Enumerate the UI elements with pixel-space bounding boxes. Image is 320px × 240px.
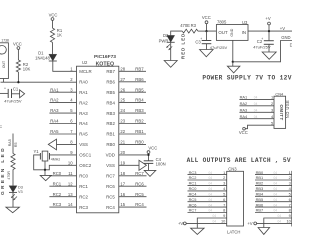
svg-text:12: 12 <box>68 181 73 186</box>
svg-text:C3: C3 <box>195 39 201 44</box>
svg-text:RC6: RC6 <box>106 184 115 189</box>
junction +V rail/C2 <box>268 30 270 32</box>
svg-text:RB2: RB2 <box>135 119 144 124</box>
svg-text:04: 04 <box>213 220 217 224</box>
svg-text:RC6: RC6 <box>189 202 197 207</box>
wire net RC1 to CN3 pin 3 <box>188 184 227 186</box>
svg-text:14: 14 <box>68 202 73 207</box>
wire D1 to MCLR pin 1 <box>53 61 77 71</box>
svg-text:8: 8 <box>223 208 225 213</box>
wire CN3 pin 9 to ground <box>197 218 226 228</box>
wire into C1 <box>0 92 8 94</box>
svg-text:+V: +V <box>178 221 183 226</box>
node RB1 label <box>135 129 144 134</box>
ground (C2) <box>262 52 276 59</box>
CN3 pin number 5 <box>223 192 225 197</box>
svg-text:04: 04 <box>209 203 213 207</box>
svg-text:RA5: RA5 <box>8 139 12 146</box>
wire VCC terminal down to VDD wire <box>148 154 150 161</box>
junction 7805 gnd <box>232 61 234 63</box>
wire net RC4 to CN3 pin 5 <box>188 195 227 197</box>
wire gnd rail to right edge <box>233 41 292 62</box>
svg-text:23: 23 <box>120 119 125 124</box>
svg-text:RB5: RB5 <box>106 90 115 95</box>
svg-text:100N: 100N <box>156 162 166 167</box>
LED D2 emission arrows <box>166 44 172 50</box>
svg-text:RB2: RB2 <box>256 181 264 186</box>
pin name RC2 (left row 13) <box>79 194 88 199</box>
pin number 12 <box>68 181 73 186</box>
svg-text:+V: +V <box>280 26 285 31</box>
svg-text:RA2: RA2 <box>79 100 88 105</box>
wire net RB5 from pin 26 <box>119 91 146 93</box>
junction R2/bus <box>17 81 19 83</box>
CN3 pin number 10 <box>221 219 226 224</box>
wire C1 to port arrow <box>12 93 20 95</box>
ground (green LED) <box>6 207 20 213</box>
faint mark CN3 row 1 <box>209 171 213 175</box>
faint mark CN3 row 4 <box>209 187 213 191</box>
svg-text:D2: D2 <box>163 33 169 38</box>
node RC3 label <box>53 202 62 207</box>
CN4 pin number 2 <box>271 101 273 106</box>
node RB0 label <box>135 140 144 145</box>
svg-text:RC1: RC1 <box>79 184 88 189</box>
label +V (rail, right) <box>280 26 285 31</box>
svg-text:RB5: RB5 <box>135 87 144 92</box>
power VCC terminal (R2 top) <box>13 41 22 49</box>
svg-text:7: 7 <box>289 202 291 207</box>
svg-text:04: 04 <box>278 220 282 224</box>
svg-text:RC5: RC5 <box>189 197 197 202</box>
wire net RC5 to CN3 pin 6 <box>188 201 227 203</box>
wire CN4 pin 5 to VCC <box>245 125 274 129</box>
label C3 value 47uF/25V <box>210 45 228 50</box>
svg-text:04: 04 <box>274 203 278 207</box>
faint mark CN2 row 3 <box>274 182 278 186</box>
label D2 <box>163 33 169 38</box>
wire net RC2 to CN3 pin 2 <box>188 179 227 181</box>
svg-text:RC2: RC2 <box>53 192 62 197</box>
capacitor C1 plates <box>8 89 11 98</box>
svg-text:RA1: RA1 <box>50 87 59 92</box>
pin number 1 <box>70 66 73 71</box>
wire R2 to bus <box>17 72 19 82</box>
svg-text:1: 1 <box>271 95 273 100</box>
CN2 pin number 10 <box>286 219 291 224</box>
junction VDD/C4 <box>147 154 149 156</box>
node VCC label (clipped at left edge) <box>0 125 2 129</box>
label C2 value 47uF/25V <box>253 45 271 50</box>
resistor R3 <box>182 29 198 33</box>
wire IR OUT pin down to RA0 bus <box>3 79 5 83</box>
CN2 pin number 9 <box>289 213 291 218</box>
label 4MHz <box>51 157 61 161</box>
svg-text:RC7: RC7 <box>189 208 197 213</box>
wire net RC1 to pin 12 <box>49 185 76 187</box>
wire net RB6 from pin 27 <box>119 81 146 83</box>
faint mark CN2 row 8 <box>274 209 278 213</box>
svg-text:RB5: RB5 <box>256 197 264 202</box>
label Y1 <box>34 149 40 154</box>
net port arrow right (C1) <box>20 90 25 98</box>
IR receiver module U1 (TSOP1738) body <box>0 43 8 79</box>
IR receiver label 1738 <box>1 39 9 43</box>
label R2 10K <box>23 62 31 71</box>
pin number 21 <box>120 140 125 145</box>
power +V terminal (CN2) <box>247 221 256 226</box>
label C3 <box>195 39 201 44</box>
pin name RA3 (left row 5) <box>79 111 88 116</box>
svg-text:VDD: VDD <box>106 153 115 158</box>
svg-text:RC7: RC7 <box>135 171 144 176</box>
node RA1 label <box>50 87 59 92</box>
node RB6 label <box>135 77 144 82</box>
wire net RC0 to CN3 pin 4 <box>188 190 227 192</box>
svg-text:470R: 470R <box>7 171 11 180</box>
pin name RA5 (left row 7) <box>79 132 88 137</box>
ground port arrow (pin 8 VSS) <box>48 139 56 150</box>
pin name RC1 (left row 12) <box>79 184 88 189</box>
svg-text:GREEN LED: GREEN LED <box>0 146 5 195</box>
power +V terminal (C2 top) <box>265 16 270 25</box>
svg-text:RB1: RB1 <box>256 175 264 180</box>
svg-text:RC1: RC1 <box>53 181 62 186</box>
label 470E R3 <box>180 23 196 28</box>
faint mark CN2 row 2 <box>274 176 278 180</box>
wire R3 left to LED D2 <box>171 31 183 35</box>
svg-text:RC2: RC2 <box>79 194 88 199</box>
svg-text:04: 04 <box>213 214 217 218</box>
wire net RB0 from pin 21 <box>119 143 146 145</box>
pin number 10 <box>68 160 73 165</box>
svg-text:MCLR: MCLR <box>79 69 91 74</box>
ground (C4) <box>144 170 156 176</box>
faint mark CN3 row 7 <box>209 203 213 207</box>
label U3 <box>242 20 248 25</box>
label PWR <box>159 38 169 43</box>
node RC0 label <box>53 171 62 176</box>
faint mark CN2 row 10 <box>278 220 282 224</box>
svg-text:10: 10 <box>68 160 73 165</box>
svg-text:RC5: RC5 <box>106 194 115 199</box>
pin number 27 <box>120 77 125 82</box>
svg-text:04: 04 <box>209 193 213 197</box>
svg-text:VSS: VSS <box>79 142 88 147</box>
svg-text:RB3: RB3 <box>135 108 144 113</box>
pin number 18 <box>120 171 125 176</box>
ground (CN2) <box>258 228 270 235</box>
svg-text:04: 04 <box>209 182 213 186</box>
svg-text:RB2: RB2 <box>106 121 115 126</box>
svg-text:RB1: RB1 <box>106 132 115 137</box>
power VCC terminal (R1 top) <box>49 12 58 20</box>
svg-text:25: 25 <box>120 98 125 103</box>
svg-text:RA5: RA5 <box>79 132 88 137</box>
svg-text:OUT: OUT <box>2 61 6 68</box>
svg-text:D3: D3 <box>18 186 23 190</box>
node RC6 label (CN3) <box>189 202 197 207</box>
wire net RB0 to CN2 pin 1 <box>255 174 292 176</box>
label C1 value 47uF/25V <box>4 98 22 103</box>
svg-text:26: 26 <box>120 87 125 92</box>
svg-text:04: 04 <box>209 171 213 175</box>
svg-text:7805: 7805 <box>217 20 227 25</box>
pin number 5 <box>70 108 73 113</box>
svg-text:V3: V3 <box>18 190 23 194</box>
svg-text:RB0: RB0 <box>135 140 144 145</box>
svg-text:RC3: RC3 <box>189 170 197 175</box>
label D (cut at edge) <box>290 42 293 47</box>
svg-text:RA4: RA4 <box>50 119 59 124</box>
node RA2 label (CN4) <box>240 101 248 106</box>
ground (CN3) <box>191 228 205 234</box>
svg-text:2: 2 <box>223 175 225 180</box>
node RC5 label (CN3) <box>189 197 197 202</box>
pin name RB1 (right row 7) <box>106 132 115 137</box>
node RB1 label (CN2) <box>256 175 264 180</box>
wire CN2 pin 9 to ground <box>264 218 292 228</box>
wire 7805 gnd to ground sym <box>232 62 234 66</box>
wire net RB7 from pin 28 <box>119 70 146 72</box>
svg-text:3: 3 <box>289 181 291 186</box>
node RC3 label (CN3) <box>189 170 197 175</box>
svg-text:ALL OUTPUTS ARE LATCH , 5V: ALL OUTPUTS ARE LATCH , 5V <box>187 157 291 164</box>
svg-text:LATCH: LATCH <box>227 230 240 235</box>
wire net RA1 to CN4 pin 1 <box>239 98 274 100</box>
LED D2 (red) <box>167 35 175 42</box>
label CN3 <box>228 166 237 171</box>
node RA4 label <box>50 119 59 124</box>
CN3 pin number 3 <box>223 181 225 186</box>
CN4 pin number 1 <box>271 95 273 100</box>
svg-text:RB6: RB6 <box>135 77 144 82</box>
svg-text:47uF/25V: 47uF/25V <box>4 98 22 103</box>
wire 7805 IN to +V rail <box>248 30 292 32</box>
svg-text:RA0: RA0 <box>79 80 88 85</box>
svg-text:10K: 10K <box>23 67 31 72</box>
faint mark CN2 row 7 <box>274 203 278 207</box>
CN2 pin number 6 <box>289 197 291 202</box>
wire net RA5 down to R5 <box>12 134 14 154</box>
svg-text:R3: R3 <box>191 23 197 28</box>
svg-text:RC0: RC0 <box>79 174 88 179</box>
svg-text:RB4: RB4 <box>135 98 144 103</box>
svg-text:U2: U2 <box>82 60 88 65</box>
node RB5 label <box>135 87 144 92</box>
node RA1 label (CN4) <box>240 95 248 100</box>
svg-text:11: 11 <box>68 171 73 176</box>
svg-text:+: + <box>4 87 6 91</box>
svg-text:5: 5 <box>271 120 273 125</box>
diode D1 1N4148 <box>49 54 57 61</box>
capacitor C4 plates <box>144 161 154 164</box>
svg-text:RED LED: RED LED <box>180 33 185 59</box>
capacitor C2 plates <box>264 41 274 45</box>
wire R5 to LED D3 <box>12 170 14 186</box>
pin name RC0 (left row 11) <box>79 174 88 179</box>
svg-text:1K: 1K <box>57 33 62 38</box>
svg-text:RB4: RB4 <box>256 192 264 197</box>
svg-text:22: 22 <box>120 129 125 134</box>
wire VCC down to out rail <box>207 24 217 32</box>
pin name IN (7805) <box>242 30 246 35</box>
faint mark CN4 row 4 <box>254 115 258 119</box>
pin number 26 <box>120 87 125 92</box>
svg-text:RC4: RC4 <box>189 192 198 197</box>
svg-text:20: 20 <box>120 150 125 155</box>
svg-text:13: 13 <box>68 192 73 197</box>
ground (red LED) <box>164 61 177 68</box>
svg-text:RC1: RC1 <box>189 181 197 186</box>
svg-text:1738: 1738 <box>1 39 9 43</box>
pin number 3 <box>70 87 73 92</box>
svg-text:04: 04 <box>278 214 282 218</box>
svg-text:RC0: RC0 <box>53 171 62 176</box>
svg-text:04: 04 <box>209 176 213 180</box>
pin number 14 <box>68 202 73 207</box>
ground (C3) <box>200 50 214 57</box>
wire net RA5 to pin 7 <box>49 133 76 135</box>
node RB4 label <box>135 98 144 103</box>
pin number 23 <box>120 119 125 124</box>
svg-text:19: 19 <box>120 160 125 165</box>
svg-text:RC0: RC0 <box>189 186 198 191</box>
wire net RC7 to CN3 pin 8 <box>188 212 227 214</box>
CN3 pin number 1 <box>223 170 225 175</box>
wire R1 to D1 <box>52 42 54 54</box>
svg-text:18: 18 <box>120 171 125 176</box>
wire net RB1 from pin 22 <box>119 133 146 135</box>
node RA2 label <box>50 98 59 103</box>
pin name RB6 (right row 2) <box>106 80 115 85</box>
LED D3 (green) <box>9 186 17 193</box>
faint mark CN3 row 3 <box>209 182 213 186</box>
wire net RB3 to CN2 pin 4 <box>255 190 292 192</box>
label R5 (rotated) <box>14 142 18 147</box>
svg-text:RA3: RA3 <box>79 111 88 116</box>
svg-text:1: 1 <box>223 170 225 175</box>
wire net RB4 to CN2 pin 5 <box>255 195 292 197</box>
label LATCH <box>227 230 240 235</box>
label C4 value 100N <box>156 162 166 167</box>
pin number 20 <box>120 150 125 155</box>
svg-text:RA3: RA3 <box>50 108 59 113</box>
svg-text:VCC: VCC <box>49 12 58 17</box>
svg-text:D: D <box>290 42 292 47</box>
svg-text:R5: R5 <box>14 142 18 147</box>
svg-text:RA2: RA2 <box>50 98 59 103</box>
wire net RA1 to pin 3 <box>49 91 76 93</box>
wire net RC3 to CN3 pin 1 <box>188 174 227 176</box>
resistor R5 <box>11 154 15 170</box>
pin number 22 <box>120 129 125 134</box>
wire net RC4 from pin 15 <box>119 206 147 208</box>
label 470R (rotated) <box>7 171 11 180</box>
CN2 pin number 4 <box>289 186 292 191</box>
junction crystal ground <box>44 169 46 171</box>
pin name VSS (right row 10) <box>106 163 115 168</box>
wire D3 to ground <box>12 192 14 207</box>
label PIC16F73 <box>94 54 116 60</box>
wire crystal left plate loop to OSC2 pin 10 <box>34 155 77 170</box>
svg-text:IN: IN <box>242 30 246 35</box>
label C1 <box>13 86 19 91</box>
pin name RC4 (right row 14) <box>106 205 115 210</box>
CN4 pin number 3 <box>271 108 273 113</box>
node RB7 label <box>135 66 144 71</box>
svg-text:3: 3 <box>223 181 225 186</box>
node RC2 label (CN3) <box>189 175 197 180</box>
svg-text:+V: +V <box>247 221 252 226</box>
capacitor C3 plates <box>202 41 212 44</box>
pin name RA0 (left row 2) <box>79 80 88 85</box>
ground (7805) <box>227 66 240 73</box>
label V3 <box>18 190 23 194</box>
ground port arrow (pin 19 VSS) <box>139 160 146 170</box>
wire VCC to R2 <box>17 49 19 60</box>
node RC7 label (CN3) <box>189 208 197 213</box>
svg-text:RC7: RC7 <box>106 174 115 179</box>
node RB6 label (CN2) <box>256 202 264 207</box>
pin number 9 <box>70 150 73 155</box>
svg-text:16: 16 <box>120 192 125 197</box>
svg-text:3: 3 <box>271 108 273 113</box>
svg-text:24: 24 <box>120 108 125 113</box>
node RB2 label <box>135 119 144 124</box>
pin name RC5 (right row 13) <box>106 194 115 199</box>
node RA4 label (CN4) <box>240 114 248 119</box>
node RA3 label <box>50 108 59 113</box>
svg-text:1: 1 <box>289 170 291 175</box>
wire +V to CN2 pin 10 <box>257 222 292 224</box>
wire net RC0 to pin 11 <box>49 175 76 177</box>
svg-text:7: 7 <box>223 202 225 207</box>
wire R3 right to VCC node <box>198 30 207 32</box>
node RC1 label (CN3) <box>189 181 197 186</box>
label 7805 <box>217 20 227 25</box>
svg-text:04: 04 <box>274 209 278 213</box>
svg-text:04: 04 <box>209 209 213 213</box>
wire net RC7 from pin 18 <box>119 175 147 177</box>
svg-text:5: 5 <box>223 192 225 197</box>
op-amp-style IC U2 PIC16F73 body <box>77 66 119 213</box>
pin number 8 <box>70 140 73 145</box>
pin name GND (7805, rotated) <box>230 28 234 36</box>
node GND label <box>281 35 290 40</box>
faint mark CN4 row 1 <box>254 96 258 100</box>
pin name OSC1 (left row 9) <box>79 153 92 158</box>
node RC4 label (CN3) <box>189 192 198 197</box>
text POWER SUPPLY 7V TO 12V <box>202 74 291 81</box>
wire net RA3 to CN4 pin 3 <box>239 111 274 113</box>
label C2 <box>257 39 263 44</box>
pin number 13 <box>68 192 73 197</box>
svg-text:+V: +V <box>265 16 270 21</box>
svg-text:RB6: RB6 <box>106 80 115 85</box>
svg-text:9: 9 <box>289 213 291 218</box>
svg-text:OSC2: OSC2 <box>79 163 92 168</box>
wire net RB4 from pin 25 <box>119 102 146 104</box>
svg-text:RB3: RB3 <box>256 186 264 191</box>
node RC4 label <box>135 202 144 207</box>
svg-text:OMITT: OMITT <box>279 105 284 121</box>
svg-text:RB7: RB7 <box>256 208 264 213</box>
pin number 15 <box>120 202 125 207</box>
wire 7805 GND pin down <box>232 40 234 61</box>
svg-text:GND: GND <box>230 28 234 36</box>
faint mark CN4 row 3 <box>254 109 258 113</box>
